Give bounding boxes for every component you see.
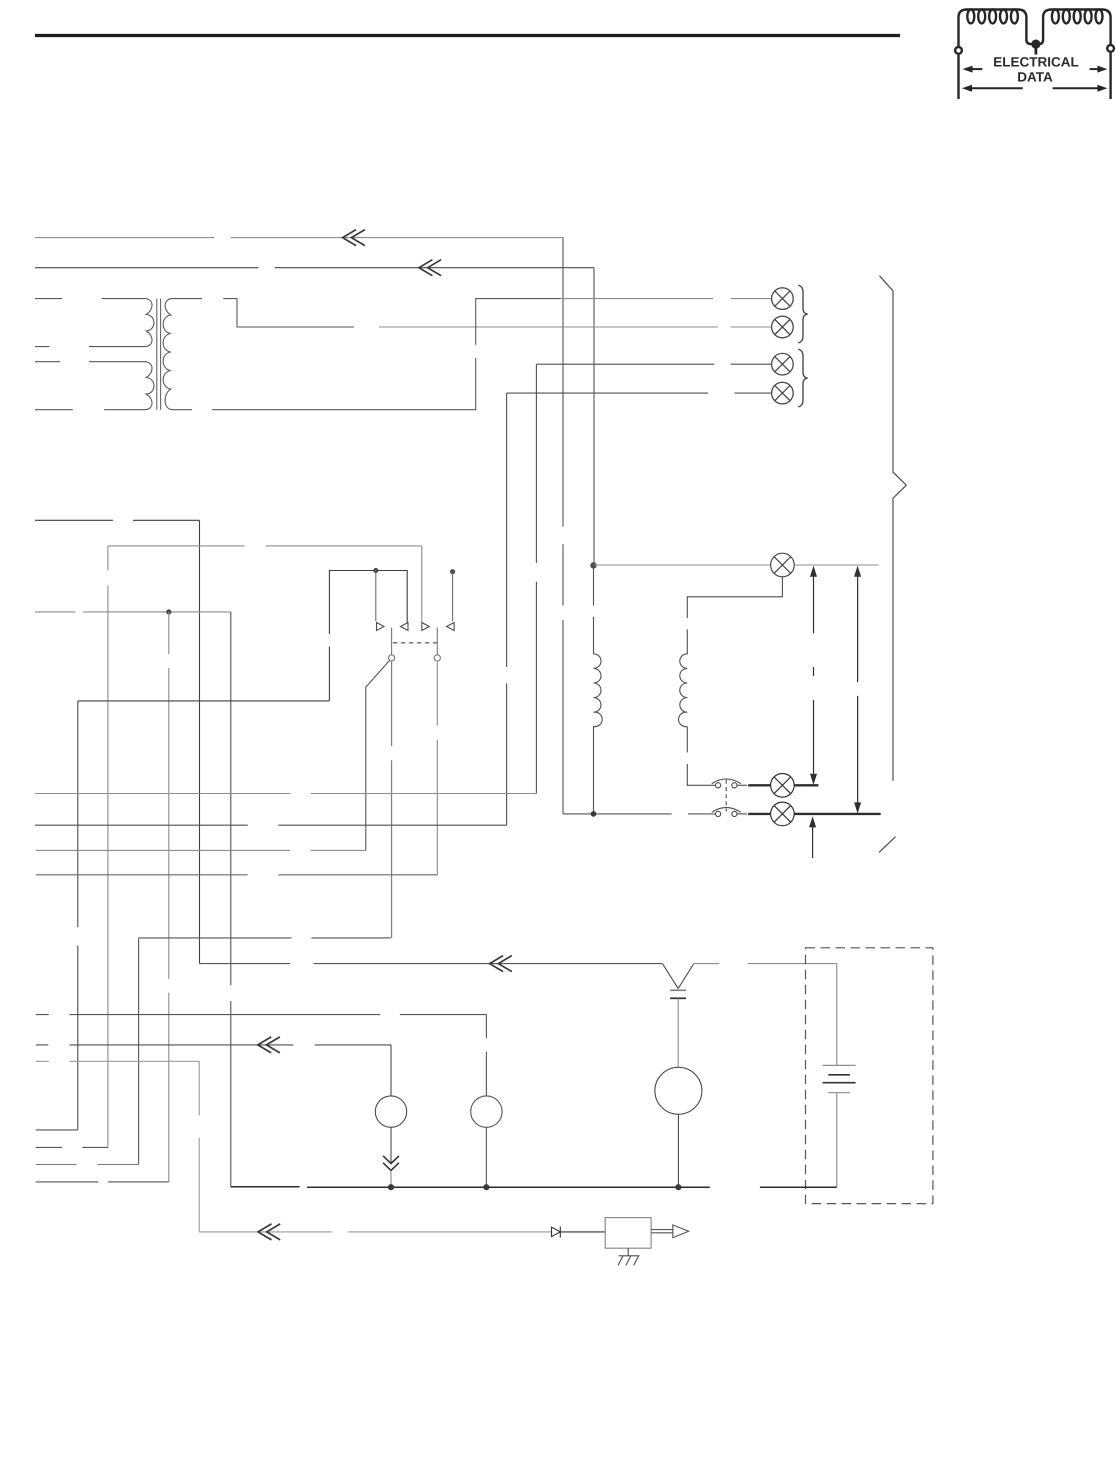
wire stub y1130 — [36, 1129, 78, 1131]
lamp L5 meter lamp — [771, 553, 795, 577]
wire vertical from B down to node L — [593, 268, 595, 565]
wire riser lamp4 — [506, 393, 508, 825]
lamp L1 — [772, 288, 794, 310]
wire A top feed — [35, 237, 563, 239]
wire dot to contact 4 — [452, 572, 454, 621]
wire lower bracket feed — [78, 700, 330, 702]
coil L2 right winding of icon — [1036, 9, 1111, 45]
wire stub y1147 — [36, 1146, 108, 1148]
transformer T1 primary winding 1 — [35, 299, 154, 347]
node dot bus gauge2 — [483, 1184, 489, 1190]
lamp L6 — [771, 774, 795, 798]
ground chevron under gauge G1 — [383, 1156, 399, 1187]
wire engine stop lead — [35, 519, 200, 521]
dimension arrow B — [855, 567, 861, 813]
wire secondary top to jog — [223, 299, 772, 327]
wire lamp5 bottom jog — [687, 577, 782, 618]
wire lamp3 feed — [536, 363, 772, 365]
icon arrow row1 right — [1090, 66, 1108, 73]
switch S1 pole 2 — [434, 628, 440, 662]
output arrow open — [651, 1225, 689, 1238]
icon arrow row2 right — [1053, 85, 1108, 92]
wire B second feed — [35, 267, 594, 269]
wire y1061 gray lead — [36, 1060, 200, 1062]
wire dot to contact 1 — [375, 571, 377, 622]
connector contact 3 — [422, 623, 430, 631]
node L dot — [590, 562, 596, 568]
wire diode to module — [560, 1231, 605, 1233]
header rule — [35, 34, 900, 37]
wire lamp4 feed — [507, 392, 772, 394]
connector chevron on sender lead — [258, 1224, 280, 1240]
switch gang link dashed — [393, 642, 437, 644]
wire y875 — [36, 874, 438, 876]
icon arrow row1 left — [963, 66, 983, 73]
connector chevron on gauge1 feed — [258, 1037, 280, 1053]
wire node row to corner — [35, 611, 231, 613]
dimension arrow A — [810, 567, 816, 784]
lamp L2 — [772, 316, 794, 338]
wire pole2 down — [436, 661, 438, 875]
lighting coil 1 — [594, 565, 603, 814]
bold wire lamp6 row — [748, 784, 818, 786]
wire lighting main — [594, 564, 879, 566]
connector contact 1 — [377, 623, 385, 631]
battery BT1 plates — [823, 1065, 856, 1092]
connector chevron on wire B — [419, 260, 441, 276]
wire y1015 gauge2 feed — [36, 1014, 487, 1016]
node dot bus — [591, 811, 597, 817]
wire riser lamp3 — [535, 364, 537, 793]
wire vertical gray left — [107, 546, 109, 1148]
transformer T1 secondary winding — [163, 299, 202, 410]
wire gray vertical to contact 3 — [421, 546, 423, 623]
wire gray feed to contact 3 — [108, 545, 422, 547]
gauge G1 — [375, 1045, 406, 1163]
group bracket right — [879, 276, 906, 853]
connector chevron on plug wire — [490, 956, 512, 972]
motor M circle — [655, 1067, 702, 1187]
coil L1 left winding of icon — [959, 9, 1036, 47]
wire stub y1164 — [36, 1164, 139, 1166]
lamp L4 — [772, 382, 794, 404]
node dot terminal — [450, 569, 455, 574]
wire vertical x230 — [230, 612, 232, 1187]
bold wire lamp7 row — [748, 813, 881, 815]
node dot on 612 wire — [166, 609, 171, 614]
wire transformer bottom to riser — [212, 299, 772, 410]
brace pair lamps 3-4 — [798, 349, 807, 407]
terminal right — [1107, 45, 1114, 99]
wire trim sender lead — [199, 1231, 551, 1233]
dimension arrow C — [810, 817, 816, 858]
wire bus lamps bottom — [563, 813, 716, 815]
connector chevron on wire A — [343, 230, 365, 246]
node dot on bracket — [373, 568, 378, 573]
transformer T1 core — [157, 299, 161, 410]
wire plug right to battery — [694, 964, 837, 1066]
switch S2 terminals row 2 — [712, 808, 747, 817]
wire pole1 down — [391, 661, 393, 938]
switch S2 terminals row 1 — [712, 779, 747, 788]
battery box dashed — [806, 948, 933, 1204]
wire vertical x78 — [77, 701, 79, 1130]
wire main to spark plug — [200, 963, 663, 965]
wire stub y1182 — [36, 1181, 169, 1183]
switch S1 pole 1 — [389, 628, 395, 662]
node dot bus motor — [675, 1184, 681, 1190]
switch blade diagonal — [366, 660, 390, 850]
wire battery negative down — [836, 1093, 838, 1188]
diode D1 — [552, 1227, 561, 1238]
wire y1045 gauge1 feed — [36, 1044, 391, 1046]
transformer T1 primary winding 2 — [35, 362, 154, 410]
lighting coil 2 — [679, 629, 716, 785]
wire vertical from node dot — [168, 612, 170, 1182]
node dot bus gauge1 — [388, 1184, 394, 1190]
wire vertical black main — [199, 520, 201, 963]
wire vertical x138 — [138, 938, 140, 1165]
wire ground bus — [231, 1186, 837, 1188]
icon label text — [993, 55, 1079, 85]
connector contact 4 — [447, 623, 455, 631]
electrical data section icon — [955, 9, 1114, 99]
wire y794 — [35, 793, 536, 795]
lamp L3 — [772, 353, 794, 375]
wire vertical from A down to lamp bus — [562, 238, 564, 814]
center tap node — [1031, 40, 1040, 55]
wire y825 — [35, 824, 507, 826]
switch S2 gang link — [725, 780, 727, 812]
wire gray vertical x199 — [198, 1061, 200, 1232]
gauge G2 — [471, 1015, 502, 1188]
module box U1 — [605, 1218, 651, 1249]
connector contact 2 — [401, 623, 409, 631]
brace pair lamps 1-2 — [798, 285, 807, 343]
svg-text:ELECTRICAL: ELECTRICAL — [993, 55, 1079, 70]
wire y850 — [36, 849, 366, 851]
svg-text:DATA: DATA — [1017, 70, 1053, 85]
ground symbol under module — [618, 1248, 640, 1265]
lamp L7 — [771, 802, 795, 826]
wire y938 link — [139, 937, 391, 939]
spark plug symbol — [663, 964, 694, 1067]
switch feed bracket — [329, 571, 407, 701]
icon arrow row2 left — [962, 85, 1023, 92]
terminal left — [955, 47, 962, 99]
